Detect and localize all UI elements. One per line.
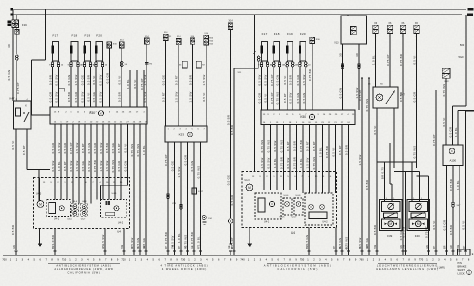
svg-text:U4-7: U4-7 xyxy=(292,217,298,219)
svg-text:0.5 SW: 0.5 SW xyxy=(87,160,91,171)
svg-text:F18: F18 xyxy=(274,32,280,36)
svg-text:0.5 RT: 0.5 RT xyxy=(162,92,166,102)
svg-text:0.5 VI: 0.5 VI xyxy=(11,140,15,149)
svg-text:1.5 SW: 1.5 SW xyxy=(188,91,192,102)
svg-text:F18: F18 xyxy=(72,34,78,38)
svg-text:0.75 RT: 0.75 RT xyxy=(425,226,429,238)
svg-text:0.75 WS: 0.75 WS xyxy=(280,140,284,153)
svg-text:0.5 GN: 0.5 GN xyxy=(305,235,309,246)
svg-text:0.5 GR: 0.5 GR xyxy=(296,75,300,86)
svg-text:0.5 VI: 0.5 VI xyxy=(202,92,206,101)
svg-text:0.5 VI: 0.5 VI xyxy=(133,79,137,88)
svg-text:0.5 RT: 0.5 RT xyxy=(63,161,67,171)
svg-text:0.5 BR: 0.5 BR xyxy=(289,75,293,85)
svg-text:0.75 BR: 0.75 BR xyxy=(190,232,194,244)
svg-text:700: 700 xyxy=(2,258,7,262)
svg-text:0.5 GE: 0.5 GE xyxy=(162,75,166,86)
svg-text:0.5 GE: 0.5 GE xyxy=(81,161,85,172)
svg-text:F17: F17 xyxy=(262,32,268,36)
svg-text:0.75 RT: 0.75 RT xyxy=(386,54,390,66)
svg-text:U4: U4 xyxy=(291,231,295,235)
svg-text:S117: S117 xyxy=(198,191,204,193)
svg-text:0.75 WS: 0.75 WS xyxy=(365,99,369,112)
svg-text:GE: GE xyxy=(229,245,231,249)
svg-text:1.5 SW: 1.5 SW xyxy=(75,160,79,171)
svg-text:0.5 GN: 0.5 GN xyxy=(190,161,194,172)
svg-text:1.5 SW: 1.5 SW xyxy=(57,142,61,153)
svg-text:K: K xyxy=(451,149,453,153)
svg-text:0.5 SW: 0.5 SW xyxy=(171,235,175,246)
svg-text:0.5 SW: 0.5 SW xyxy=(289,92,293,103)
svg-text:0.5 VI: 0.5 VI xyxy=(264,93,268,102)
svg-text:0.5 VI: 0.5 VI xyxy=(332,147,336,156)
svg-text:0.75 RT: 0.75 RT xyxy=(358,89,362,101)
svg-text:0.5 GR: 0.5 GR xyxy=(106,73,110,84)
svg-text:0.75 BR: 0.75 BR xyxy=(325,146,329,158)
svg-text:F40: F40 xyxy=(415,234,420,238)
svg-text:F19: F19 xyxy=(85,34,91,38)
svg-text:GE: GE xyxy=(192,245,194,249)
svg-text:0.5 VI: 0.5 VI xyxy=(442,117,446,126)
svg-text:U4-3: U4-3 xyxy=(245,180,251,182)
svg-text:750: 750 xyxy=(300,258,305,262)
svg-text:U4-2: U4-2 xyxy=(118,222,124,225)
svg-text:0.5 GR: 0.5 GR xyxy=(258,93,262,104)
svg-text:0.5 GE: 0.5 GE xyxy=(81,75,85,86)
svg-text:X14: X14 xyxy=(229,21,234,23)
svg-text:0.5 GN: 0.5 GN xyxy=(124,161,128,172)
svg-text:0.5 BR: 0.5 BR xyxy=(345,145,349,155)
svg-text:0.5 BR: 0.5 BR xyxy=(373,225,377,235)
svg-text:BR: BR xyxy=(307,245,309,249)
svg-text:0.75 WS: 0.75 WS xyxy=(136,144,140,157)
svg-text:0.75 WS: 0.75 WS xyxy=(276,92,280,105)
svg-text:0.5 GR: 0.5 GR xyxy=(51,143,55,154)
svg-text:0.5 GR: 0.5 GR xyxy=(449,127,453,138)
svg-text:0.75 WS: 0.75 WS xyxy=(260,140,264,153)
svg-text:0.5 BR: 0.5 BR xyxy=(87,75,91,85)
svg-text:SHIFT: SHIFT xyxy=(458,268,466,272)
svg-text:BR 0.75: BR 0.75 xyxy=(381,167,385,179)
svg-text:1.0 BL: 1.0 BL xyxy=(142,145,146,155)
svg-text:0.75 BR: 0.75 BR xyxy=(308,69,312,81)
svg-text:0.5 VI: 0.5 VI xyxy=(118,75,122,84)
svg-text:0.5 BR: 0.5 BR xyxy=(105,143,109,153)
svg-text:0.5 VI: 0.5 VI xyxy=(124,143,128,152)
svg-text:LEUCHTWEITENREGULIERUNG: LEUCHTWEITENREGULIERUNG xyxy=(377,263,438,267)
svg-text:ANTIBLOCKIERSYSTEM (ABS): ANTIBLOCKIERSYSTEM (ABS) xyxy=(264,263,333,267)
svg-text:5G0: 5G0 xyxy=(458,55,464,59)
svg-text:0.5 GN: 0.5 GN xyxy=(302,93,306,104)
svg-text:0.5 SW: 0.5 SW xyxy=(143,91,147,102)
svg-text:0.5 SW: 0.5 SW xyxy=(99,91,103,102)
svg-text:1.0 BL: 1.0 BL xyxy=(177,233,181,243)
svg-text:0.75 BR: 0.75 BR xyxy=(399,54,403,66)
svg-text:0.5 SW: 0.5 SW xyxy=(264,74,268,85)
svg-text:0.75 WS: 0.75 WS xyxy=(267,140,271,153)
svg-text:0.75 BR: 0.75 BR xyxy=(299,140,303,152)
svg-text:0.5 GR: 0.5 GR xyxy=(117,161,121,172)
svg-text:500: 500 xyxy=(460,43,465,47)
svg-text:0.5 VI: 0.5 VI xyxy=(432,220,436,229)
svg-text:ANTIBLOCKIERSYSTEM (ABS): ANTIBLOCKIERSYSTEM (ABS) xyxy=(56,263,111,267)
svg-text:1.0 BL: 1.0 BL xyxy=(126,79,130,89)
svg-text:0.5 RT: 0.5 RT xyxy=(283,93,287,103)
svg-text:0.5 BR: 0.5 BR xyxy=(230,125,234,135)
svg-text:K53: K53 xyxy=(179,133,185,137)
svg-text:0.5 SW: 0.5 SW xyxy=(273,140,277,151)
svg-text:1.0 BL: 1.0 BL xyxy=(372,55,376,65)
svg-text:1.0 BL: 1.0 BL xyxy=(319,147,323,157)
svg-text:0.5 BR: 0.5 BR xyxy=(449,225,453,235)
svg-text:1.0 BL: 1.0 BL xyxy=(273,158,277,168)
svg-text:P/N: P/N xyxy=(458,261,462,265)
svg-text:GN: GN xyxy=(427,245,429,249)
svg-text:1.5 SW: 1.5 SW xyxy=(101,234,105,245)
svg-text:0.75 WS: 0.75 WS xyxy=(312,157,316,170)
svg-text:0.5 BR: 0.5 BR xyxy=(49,75,53,85)
svg-text:0.5 BR: 0.5 BR xyxy=(227,115,231,125)
svg-text:1.0 BR: 1.0 BR xyxy=(51,235,55,245)
svg-text:0.5 SW: 0.5 SW xyxy=(55,74,59,85)
svg-text:0.5 VI: 0.5 VI xyxy=(92,75,96,84)
svg-text:U4: U4 xyxy=(117,230,121,234)
svg-text:1.5 SW: 1.5 SW xyxy=(260,157,264,168)
svg-text:0.5 GN: 0.5 GN xyxy=(7,70,11,81)
svg-text:F16: F16 xyxy=(22,23,27,27)
svg-text:0.5 BR: 0.5 BR xyxy=(293,141,297,151)
svg-text:0.5 RT: 0.5 RT xyxy=(22,145,26,155)
svg-text:0.75 BR: 0.75 BR xyxy=(449,179,453,191)
svg-text:0.75 BR: 0.75 BR xyxy=(293,157,297,169)
svg-text:720: 720 xyxy=(121,258,126,262)
svg-text:0.5 SW: 0.5 SW xyxy=(99,74,103,85)
svg-text:U4-1: U4-1 xyxy=(54,218,60,221)
svg-text:710: 710 xyxy=(62,258,67,262)
svg-text:1.5 SW: 1.5 SW xyxy=(99,160,103,171)
svg-text:1.0 BL: 1.0 BL xyxy=(299,158,303,168)
svg-text:0.75 RT: 0.75 RT xyxy=(270,92,274,104)
svg-text:0.5 GE: 0.5 GE xyxy=(227,175,231,186)
svg-text:U4-2: U4-2 xyxy=(322,221,328,224)
svg-text:0.5 GR: 0.5 GR xyxy=(184,155,188,166)
svg-text:0.75 WS: 0.75 WS xyxy=(442,84,446,97)
svg-text:U4-6: U4-6 xyxy=(284,195,290,197)
svg-text:M: M xyxy=(248,186,251,190)
svg-text:X13: X13 xyxy=(334,42,339,45)
svg-text:F20: F20 xyxy=(300,32,306,36)
svg-text:1.5 SW: 1.5 SW xyxy=(75,142,79,153)
svg-text:0.5 RT: 0.5 RT xyxy=(117,143,121,153)
svg-text:0.5 SW: 0.5 SW xyxy=(69,160,73,171)
svg-text:0.75 RT: 0.75 RT xyxy=(140,78,144,90)
svg-text:1.5 SW: 1.5 SW xyxy=(202,74,206,85)
svg-text:0.5 GE: 0.5 GE xyxy=(92,92,96,103)
svg-text:0.5 SW: 0.5 SW xyxy=(267,157,271,168)
svg-text:0.5 RT: 0.5 RT xyxy=(312,141,316,151)
svg-text:0.5 RT: 0.5 RT xyxy=(175,75,179,85)
svg-text:GR: GR xyxy=(367,245,369,249)
svg-text:CALIFORNIA (5W): CALIFORNIA (5W) xyxy=(67,270,100,274)
svg-text:VI: VI xyxy=(138,246,140,249)
svg-text:U4-8: U4-8 xyxy=(296,195,302,197)
svg-text:GE: GE xyxy=(144,245,146,249)
svg-text:0.75 WS: 0.75 WS xyxy=(184,235,188,248)
svg-text:0.5 GR: 0.5 GR xyxy=(93,143,97,154)
svg-text:1.0 BL: 1.0 BL xyxy=(57,161,61,171)
svg-text:740: 740 xyxy=(240,258,245,262)
svg-text:770: 770 xyxy=(419,258,424,262)
svg-text:0.75 WS: 0.75 WS xyxy=(111,160,115,173)
svg-text:ALLRADFAHRZEUGE (4WD, AWD: ALLRADFAHRZEUGE (4WD, AWD xyxy=(54,267,113,271)
svg-text:730: 730 xyxy=(181,258,186,262)
svg-text:0.5 RT: 0.5 RT xyxy=(81,143,85,153)
svg-text:1.5 SW: 1.5 SW xyxy=(306,157,310,168)
svg-text:1.5 SW: 1.5 SW xyxy=(175,91,179,102)
svg-text:K47: K47 xyxy=(10,97,15,101)
svg-text:1.5 SW: 1.5 SW xyxy=(302,74,306,85)
svg-text:0.5 RT: 0.5 RT xyxy=(286,141,290,151)
svg-text:4 WHEEL DRIVE (4WD): 4 WHEEL DRIVE (4WD) xyxy=(162,267,207,271)
svg-text:0.5 GR: 0.5 GR xyxy=(49,92,53,103)
svg-text:M: M xyxy=(39,202,42,206)
svg-text:VI: VI xyxy=(360,246,362,249)
svg-text:HEADLAMPS LEVELLING (LWR): HEADLAMPS LEVELLING (LWR) xyxy=(376,267,439,271)
svg-text:LOCK: LOCK xyxy=(458,272,465,276)
svg-text:0.5 VI: 0.5 VI xyxy=(283,75,287,84)
svg-text:0.5 VI: 0.5 VI xyxy=(373,125,377,134)
svg-text:0.5 RT: 0.5 RT xyxy=(338,145,342,155)
svg-text:CALIFORNIA (5W): CALIFORNIA (5W) xyxy=(277,267,318,271)
svg-text:F17: F17 xyxy=(53,34,59,38)
svg-text:U4-3: U4-3 xyxy=(36,193,42,196)
svg-text:0.5 GN: 0.5 GN xyxy=(87,143,91,154)
svg-text:0.75 BR: 0.75 BR xyxy=(93,160,97,172)
svg-text:0.5 BR: 0.5 BR xyxy=(118,92,122,102)
svg-text:0.5 BR: 0.5 BR xyxy=(11,225,15,235)
svg-text:0.5 GR: 0.5 GR xyxy=(74,92,78,103)
svg-text:1.0 BL: 1.0 BL xyxy=(197,236,201,246)
svg-text:U4-1: U4-1 xyxy=(264,220,270,223)
svg-text:0.5 BR: 0.5 BR xyxy=(67,92,71,102)
svg-text:0.75 RT: 0.75 RT xyxy=(164,154,168,166)
svg-text:0.5 GN: 0.5 GN xyxy=(296,93,300,104)
svg-text:BR: BR xyxy=(53,245,55,249)
svg-text:0.5 BR: 0.5 BR xyxy=(188,75,192,85)
svg-text:0.5 VI: 0.5 VI xyxy=(462,220,466,229)
svg-text:BR: BR xyxy=(445,245,447,249)
svg-text:F20: F20 xyxy=(96,34,102,38)
svg-text:0.75 RT: 0.75 RT xyxy=(69,142,73,154)
svg-text:GR: GR xyxy=(451,245,453,249)
svg-text:0.5 GN: 0.5 GN xyxy=(67,75,71,86)
svg-text:760: 760 xyxy=(359,258,364,262)
svg-text:U4-5: U4-5 xyxy=(280,217,286,219)
svg-text:0.5 GR: 0.5 GR xyxy=(63,143,67,154)
svg-text:0.5 SW: 0.5 SW xyxy=(81,91,85,102)
svg-text:F19: F19 xyxy=(287,32,293,36)
svg-text:0.5 GE: 0.5 GE xyxy=(171,161,175,172)
svg-text:0.75 WS: 0.75 WS xyxy=(412,146,416,159)
svg-text:0.5 BR: 0.5 BR xyxy=(365,180,369,190)
svg-text:0.5 SW: 0.5 SW xyxy=(99,142,103,153)
svg-text:GN: GN xyxy=(14,245,16,249)
svg-text:A100: A100 xyxy=(450,158,457,162)
svg-text:0.5 GN: 0.5 GN xyxy=(339,88,343,99)
svg-text:X6/2: X6/2 xyxy=(444,81,449,83)
svg-text:0.75 WS: 0.75 WS xyxy=(130,144,134,157)
svg-text:30: 30 xyxy=(355,53,359,57)
svg-text:1.0 BL: 1.0 BL xyxy=(454,127,458,137)
svg-text:1.0 BL: 1.0 BL xyxy=(456,180,460,190)
svg-text:0.5 RT: 0.5 RT xyxy=(306,141,310,151)
svg-text:0.75 RT: 0.75 RT xyxy=(432,134,436,146)
svg-text:0.5 SW: 0.5 SW xyxy=(55,91,59,102)
svg-text:0.75 RT: 0.75 RT xyxy=(270,74,274,86)
svg-text:U4-4: U4-4 xyxy=(112,193,118,195)
svg-text:0.5 GN: 0.5 GN xyxy=(276,75,280,86)
svg-text:30: 30 xyxy=(339,53,343,57)
svg-text:M: M xyxy=(389,222,392,226)
svg-text:0.5 SW: 0.5 SW xyxy=(286,157,290,168)
svg-text:( LWR): ( LWR) xyxy=(437,267,445,270)
svg-text:0.5 GE: 0.5 GE xyxy=(111,143,115,154)
svg-text:4 TIRE ANTILOCK (ABS): 4 TIRE ANTILOCK (ABS) xyxy=(160,263,208,267)
svg-text:BRAKE: BRAKE xyxy=(458,265,467,269)
svg-text:0.5 SW: 0.5 SW xyxy=(258,74,262,85)
svg-text:F39: F39 xyxy=(387,234,392,238)
svg-text:0.5 GR: 0.5 GR xyxy=(443,220,447,231)
svg-text:WS: WS xyxy=(103,245,105,249)
svg-text:1.5 SW: 1.5 SW xyxy=(105,160,109,171)
svg-text:0.5 GR: 0.5 GR xyxy=(230,195,234,206)
svg-text:30: 30 xyxy=(7,44,11,48)
svg-text:0.75 BR: 0.75 BR xyxy=(164,232,168,244)
svg-text:0.5 GR: 0.5 GR xyxy=(412,92,416,103)
svg-text:K47: K47 xyxy=(401,94,406,97)
svg-text:1.5 SW: 1.5 SW xyxy=(358,154,362,165)
svg-text:0.5 VI: 0.5 VI xyxy=(87,92,91,101)
svg-text:1.5 SW: 1.5 SW xyxy=(177,166,181,177)
svg-text:0.5 VI: 0.5 VI xyxy=(412,55,416,64)
svg-text:0.75 WS: 0.75 WS xyxy=(197,166,201,179)
svg-text:1.5 SW: 1.5 SW xyxy=(74,74,78,85)
svg-text:M: M xyxy=(417,222,420,226)
svg-text:0.5 SW: 0.5 SW xyxy=(51,160,55,171)
svg-text:0.75 BR: 0.75 BR xyxy=(280,157,284,169)
